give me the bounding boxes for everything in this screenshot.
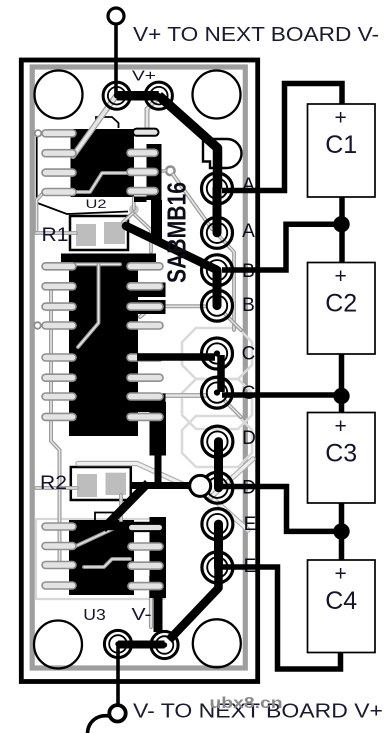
svg-text:+: + — [334, 107, 346, 130]
trace E1-E2 — [214, 524, 223, 567]
diode D1 silkscreen — [203, 139, 242, 168]
capacitor C2 — [308, 263, 376, 355]
pad V- right — [151, 631, 178, 658]
svg-text:V+ TO NEXT BOARD V-: V+ TO NEXT BOARD V- — [133, 23, 379, 46]
pad V+ left — [103, 82, 130, 109]
capacitor C4 — [308, 560, 376, 653]
pad E1 — [202, 509, 233, 540]
U1 pin-1 tab — [96, 117, 119, 128]
svg-text:R1: R1 — [42, 224, 69, 246]
trace U3 to V- pad — [149, 577, 153, 627]
wire D to junction3 — [222, 487, 342, 532]
mounting hole top-right — [193, 71, 241, 119]
svg-text:D: D — [242, 428, 256, 449]
trace hexagon around pad D — [182, 416, 252, 467]
trace B2 left — [140, 306, 205, 317]
mounting hole top-left — [35, 71, 83, 119]
U3 silkscreen outline — [36, 519, 164, 599]
junction C3-C4 — [333, 523, 349, 539]
mounting hole bottom-left — [34, 621, 82, 669]
U2 silkscreen dot — [34, 322, 41, 329]
op-amp U3 body — [69, 520, 134, 595]
svg-text:+: + — [334, 265, 346, 288]
U1 right pin 1 — [133, 129, 159, 136]
U1 right pins — [127, 149, 158, 194]
trace R2 left — [36, 486, 77, 490]
U3 pin-1 tab — [95, 513, 114, 522]
trace diagonal to jumper — [211, 459, 253, 497]
pad C2 — [202, 377, 233, 408]
trace hexagon around pad C2 — [182, 379, 252, 429]
wire C to junction2 — [222, 392, 342, 398]
svg-text:C3: C3 — [325, 440, 357, 468]
capacitor C3 — [308, 413, 376, 504]
terminal V+ — [108, 8, 124, 24]
trace E2 to V- — [169, 567, 219, 640]
trace R1 to B1 — [126, 226, 216, 270]
wire V- feed — [116, 644, 120, 706]
trace V- bus — [118, 641, 165, 649]
trace fills U2 right — [138, 254, 166, 485]
svg-text:+: + — [334, 415, 346, 438]
svg-text:C4: C4 — [325, 587, 357, 615]
wire B to junction1 — [222, 224, 342, 270]
trace U2 pin7 to pad C2 — [142, 393, 205, 398]
capacitor C1 — [308, 104, 376, 197]
wire C3- to C4+ — [339, 503, 345, 560]
trace U3 internal zigzag — [84, 559, 130, 567]
trace V+ left diagonal — [73, 96, 116, 156]
trace R1 left — [36, 231, 76, 235]
trace V near jumper — [78, 464, 248, 531]
svg-text:ubx8.cn: ubx8.cn — [210, 695, 283, 712]
junction C2-C3 — [333, 388, 349, 404]
trace fills U1 right — [134, 144, 162, 242]
pad C1 — [202, 338, 233, 369]
junction C1-C2 — [333, 216, 349, 232]
op-amp U1 body — [71, 129, 135, 197]
trace B1-B2 — [213, 270, 222, 305]
U1 silkscreen dot — [35, 130, 42, 137]
svg-text:C1: C1 — [325, 131, 357, 159]
pad D1 — [202, 426, 233, 457]
pad V+ right — [145, 82, 172, 109]
U3 left pins — [42, 523, 76, 589]
via below U1 — [129, 205, 139, 215]
trace U3 internal diagonal — [76, 526, 119, 546]
trace C1-C2 — [217, 355, 225, 392]
wire V+ feed — [114, 24, 118, 97]
mounting hole bottom-right — [193, 619, 241, 667]
U2 left pins — [42, 263, 76, 421]
trace R2 to jumper — [131, 482, 196, 489]
svg-text:C: C — [242, 343, 256, 364]
svg-text:+: + — [334, 563, 346, 586]
resistor R2 — [71, 467, 131, 500]
jumper circle at pad D2 — [190, 475, 211, 496]
op-amp U2 body — [69, 254, 138, 437]
trace R2 diagonal to U3 — [103, 483, 148, 529]
board silkscreen frame — [32, 67, 245, 668]
trace U2 to pad C — [137, 353, 215, 361]
svg-text:C2: C2 — [325, 290, 357, 318]
wire A to C1+ — [222, 84, 342, 191]
trace D1-D2 — [214, 442, 223, 488]
trace via branch — [134, 214, 151, 252]
trace stub C2 — [225, 401, 241, 417]
svg-text:E: E — [244, 514, 257, 535]
U3 right pins — [128, 543, 163, 590]
pad B2 — [202, 290, 233, 321]
trace U1 pin4 to R1 — [37, 192, 45, 233]
wire C1- to C2+ — [339, 197, 345, 263]
trace via branch left — [123, 213, 133, 222]
trace via down — [132, 198, 136, 209]
U3 right pin 1 — [128, 524, 163, 531]
trace U3 right bar — [150, 517, 167, 632]
trace left bus — [51, 284, 70, 565]
trace U2 internal vertical — [78, 264, 99, 347]
via near A2 — [166, 167, 175, 176]
wire E to C4- — [222, 567, 341, 669]
trace V+ bus — [117, 91, 159, 101]
wire C2- to C3+ — [339, 354, 345, 413]
svg-text:B: B — [242, 295, 255, 316]
svg-text:V-: V- — [132, 604, 152, 624]
pad E2 — [202, 552, 233, 583]
trace via to pad A2 — [173, 175, 212, 230]
svg-text:U2: U2 — [86, 197, 107, 211]
board outline — [21, 60, 257, 682]
trace V+ right down — [147, 97, 159, 129]
resistor R1 — [70, 216, 128, 250]
trace R2 pad down — [119, 495, 123, 521]
pad A1 — [202, 173, 233, 204]
U1 silkscreen outline — [37, 131, 128, 214]
terminal V- — [109, 705, 125, 721]
svg-text:SABMB16: SABMB16 — [164, 182, 192, 283]
trace U3 top stub — [108, 522, 158, 531]
trace fill U2 left top — [61, 254, 69, 266]
trace via stub left — [155, 169, 166, 173]
U1 left pins — [42, 130, 76, 196]
trace stub A2 — [219, 236, 234, 330]
svg-text:U3: U3 — [83, 607, 106, 624]
wire V- hook — [88, 716, 110, 733]
svg-text:R2: R2 — [40, 472, 67, 494]
U2 right pins — [127, 263, 163, 421]
pad D2 — [202, 472, 233, 503]
trace U1 pin4 step — [76, 173, 140, 192]
pad A2 — [202, 217, 233, 248]
trace V+ to pad A1 — [159, 96, 218, 189]
trace stub B2 — [225, 314, 241, 330]
trace hexagon around pad C — [182, 328, 252, 379]
pad B1 — [202, 255, 233, 286]
svg-text:A: A — [242, 221, 255, 242]
trace A1-A2 — [213, 189, 222, 233]
trace U2 internal top — [75, 262, 120, 266]
pad V- left — [104, 630, 131, 657]
